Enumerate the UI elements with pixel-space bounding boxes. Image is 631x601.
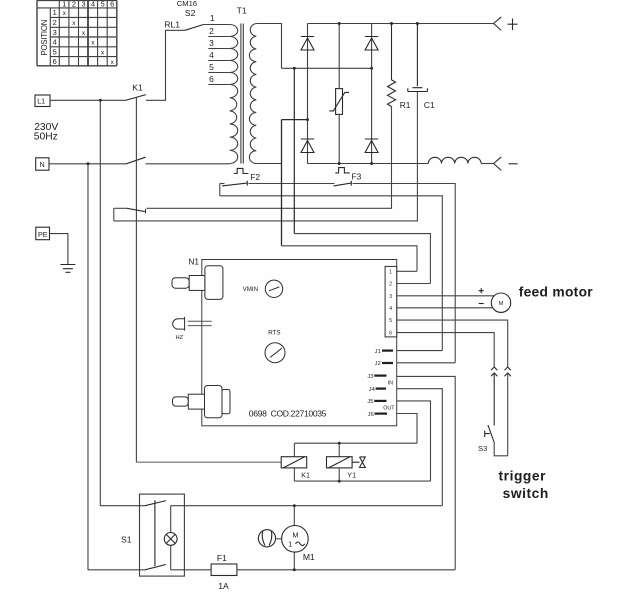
wire Y1 coil stubs <box>338 443 340 481</box>
symbol sine in M1 <box>296 542 305 546</box>
svg-text:C1: C1 <box>424 100 435 110</box>
jumper J6 dash <box>375 413 388 415</box>
svg-text:L1: L1 <box>37 97 45 106</box>
svg-text:J1: J1 <box>375 349 381 355</box>
solenoid valve coil Y1 <box>327 457 353 468</box>
svg-text:J3: J3 <box>367 374 373 380</box>
svg-text:K1: K1 <box>301 471 310 480</box>
svg-text:S1: S1 <box>121 534 132 544</box>
wire L1 to K1 <box>50 99 126 101</box>
board PCB outline <box>202 260 397 426</box>
svg-text:5: 5 <box>101 0 105 9</box>
wire N to K1 pole 2 <box>49 163 126 165</box>
svg-text:T1: T1 <box>237 5 247 15</box>
transformer primary winding <box>230 25 238 164</box>
switch S3 actuator <box>485 431 490 437</box>
wire choke to minus terminal <box>481 163 494 165</box>
wire AC1 row to pin2 jog <box>294 234 430 284</box>
wire row B to J1 drop <box>220 196 442 351</box>
wire S3 right vertical lower <box>507 373 509 456</box>
potentiometer P2 knob <box>205 386 223 418</box>
switch S1 link bar <box>154 500 156 566</box>
trimmer RTS slot <box>270 348 282 357</box>
wire S1 top row left <box>100 505 145 507</box>
wire row C-D left U turn <box>113 208 115 221</box>
contactor K1 pole 1 blade <box>126 95 146 101</box>
motor M1 circle <box>282 526 309 553</box>
svg-text:S2: S2 <box>185 8 196 18</box>
svg-text:R1: R1 <box>400 100 411 110</box>
node right leg bottom dot <box>370 162 373 165</box>
lamp S1 circle X <box>164 533 177 546</box>
motor M feed circle <box>491 293 510 312</box>
terminal box PE <box>36 227 50 240</box>
wire J4 down to S1 top row <box>397 389 443 506</box>
trimmer VMIN circle <box>265 280 282 297</box>
wire pin2 stub <box>397 283 431 285</box>
connector fork left <box>491 367 497 370</box>
wire pin1 stub <box>397 270 417 272</box>
svg-text:PE: PE <box>38 230 48 239</box>
svg-text:1: 1 <box>210 13 215 23</box>
jumper J4 dash <box>376 388 386 390</box>
svg-text:6: 6 <box>389 331 392 337</box>
wire DC top bus <box>308 23 494 25</box>
LED HZ leads <box>188 321 212 325</box>
svg-text:F3: F3 <box>352 172 362 182</box>
terminal box N <box>36 158 49 170</box>
resistor R1 <box>388 24 396 107</box>
node AC2 left leg dot <box>306 118 309 121</box>
symbol plus sign <box>508 19 518 31</box>
wire secondary bottom to AC2 riser <box>256 163 281 165</box>
ground symbol <box>60 265 75 273</box>
node AC1 branch dot <box>293 67 296 70</box>
diode D2 top right <box>365 37 378 51</box>
svg-text:5: 5 <box>52 47 56 56</box>
svg-text:trigger: trigger <box>499 469 547 484</box>
svg-text:POSITION: POSITION <box>40 20 49 56</box>
potentiometer P2 knob rear <box>222 390 230 414</box>
SECTION mains input left column <box>35 25 230 571</box>
trimmer VMIN slot <box>269 287 279 291</box>
varistor diagonal <box>329 92 349 111</box>
wire L1 branch down to S1 top row <box>99 100 101 505</box>
wire N branch down to bottom row <box>87 164 89 570</box>
svg-text:J4: J4 <box>369 387 376 393</box>
wire AC2 row to pin1 jog <box>282 246 418 271</box>
wire row D to C1 bottom riser <box>114 92 418 221</box>
wire fan link <box>276 538 281 540</box>
thermal sensor F3 symbol <box>335 168 350 173</box>
node M1 bottom dot <box>293 568 296 571</box>
SECTION bottom power row S1 F1 M1 <box>88 494 455 576</box>
diode D4 bottom right <box>365 139 378 153</box>
svg-text:4: 4 <box>91 0 95 9</box>
svg-text:N: N <box>40 160 45 169</box>
svg-text:HZ: HZ <box>176 335 184 341</box>
svg-text:5: 5 <box>209 62 214 72</box>
node Y1 top dot <box>338 442 341 445</box>
svg-text:S3: S3 <box>478 444 487 453</box>
relay coil K1 <box>281 457 307 468</box>
wire S1 lamp branch <box>170 506 172 570</box>
switch S3 blade <box>488 425 495 443</box>
symbol minus at motor <box>479 303 484 305</box>
node C1 top dot <box>416 22 419 25</box>
svg-text:50Hz: 50Hz <box>34 132 58 143</box>
wire J2 up to row A <box>397 362 456 364</box>
SECTION board pin wires and feed motor <box>397 288 511 456</box>
wire J5 down to coil bottom row <box>397 401 431 481</box>
capacitor C1 <box>408 24 428 92</box>
table x marks <box>63 10 115 66</box>
wire pin4 to motor minus <box>397 307 493 309</box>
svg-text:J2: J2 <box>375 361 381 367</box>
inductor L choke <box>428 157 481 163</box>
svg-text:6: 6 <box>110 0 114 9</box>
wire row A middle segment <box>249 183 335 185</box>
svg-text:1: 1 <box>62 0 66 9</box>
svg-text:1: 1 <box>389 269 392 275</box>
svg-text:5: 5 <box>389 318 392 324</box>
wire pin3 to motor plus <box>397 295 495 297</box>
contactor K1 pole 2 blade <box>126 157 146 164</box>
wire varistor legs <box>338 24 340 164</box>
wire AC2 riser and jog to left leg <box>282 120 308 246</box>
wire S1 pole2 to fuse F1 <box>171 569 211 571</box>
potentiometer P2 shaft <box>188 394 204 409</box>
wire pin6 to S3 left drop upper <box>397 333 495 367</box>
SECTION control board <box>172 260 397 426</box>
potentiometer N1 shaft <box>189 276 205 291</box>
svg-text:IN: IN <box>388 381 393 387</box>
wire K1 pole1 to RL1 riser <box>146 30 185 100</box>
potentiometer N1 shaft tip <box>172 278 189 289</box>
jumper J1 dash <box>382 350 393 352</box>
wire row C left corner <box>114 207 127 209</box>
svg-text:F2: F2 <box>250 172 260 182</box>
svg-text:M: M <box>292 530 298 539</box>
wire PE to ground <box>50 234 68 265</box>
svg-text:switch: switch <box>503 486 549 501</box>
connector minus output fork <box>494 157 502 171</box>
svg-text:VMIN: VMIN <box>243 286 258 293</box>
connector fork right <box>505 367 511 370</box>
switch RL1 blade <box>185 25 203 31</box>
wire pin5 to S3 right drop <box>397 320 508 367</box>
contact F2 blade <box>222 181 247 186</box>
wire S3 bottom U to right drop <box>494 443 508 456</box>
symbol plus at motor <box>479 288 484 293</box>
wire bridge right leg <box>371 24 373 164</box>
svg-text:K1: K1 <box>132 83 143 93</box>
wire K1 pole2 to transformer primary bottom <box>146 163 230 165</box>
wire row A-B left U turn <box>219 184 221 196</box>
svg-text:6: 6 <box>52 57 56 66</box>
potentiometer P2 shaft tip <box>173 397 189 406</box>
node L1 junction dot <box>99 99 102 102</box>
wire K1 blade tap down to K1 coil feed <box>135 97 137 462</box>
svg-text:4: 4 <box>209 50 214 60</box>
fuse F1 <box>211 564 237 576</box>
svg-text:2: 2 <box>389 282 392 288</box>
svg-text:Y1: Y1 <box>347 471 356 480</box>
connector block pins 1-6 <box>385 266 397 337</box>
transformer core <box>241 24 243 164</box>
node varistor bottom dot <box>338 162 341 165</box>
wire fuse to J3 drop <box>237 569 455 571</box>
svg-text:M: M <box>499 301 504 307</box>
wire K1 coil left feed <box>136 461 281 463</box>
svg-text:1: 1 <box>52 8 56 17</box>
connector plus output fork <box>494 17 502 31</box>
wire J1 up to row B <box>397 350 443 352</box>
node varistor top dot <box>338 22 341 25</box>
wire bridge left leg <box>307 24 309 164</box>
wire J6 down to coil top row <box>397 414 417 444</box>
svg-text:J5: J5 <box>367 399 373 405</box>
wire coil bottom row <box>294 480 430 482</box>
node AC1 right leg dot <box>370 67 373 70</box>
diode D3 bottom left <box>301 139 314 153</box>
table row lines <box>50 17 117 56</box>
wire K1 coil stubs <box>293 443 295 481</box>
svg-text:CM16: CM16 <box>177 0 197 8</box>
table thick row line <box>50 36 117 38</box>
table column lines <box>50 0 107 65</box>
svg-text:4: 4 <box>52 38 57 47</box>
node N junction dot <box>87 162 90 165</box>
svg-text:M1: M1 <box>303 552 315 562</box>
wire DC bottom bus <box>308 163 429 165</box>
svg-text:3: 3 <box>81 0 85 9</box>
svg-text:4: 4 <box>389 306 392 312</box>
connector arrow left <box>491 373 497 426</box>
jumper J3 dash <box>374 375 386 377</box>
contact K1 aux blade <box>127 208 146 213</box>
svg-text:3: 3 <box>389 294 392 300</box>
wire RL1 to transformer tap 1 <box>203 24 229 26</box>
svg-text:feed motor: feed motor <box>519 284 594 299</box>
svg-text:2: 2 <box>72 0 76 9</box>
wire coil top row <box>294 442 417 444</box>
varistor body <box>336 89 343 115</box>
trimmer RTS circle <box>265 343 285 363</box>
SECTION top-left selector table <box>37 0 117 65</box>
SECTION transformer T1 <box>208 24 256 164</box>
SECTION AC feed rows to board pins 1-2 <box>282 234 431 284</box>
svg-text:J6: J6 <box>368 412 374 418</box>
SECTION rectifier bridge and DC output <box>256 17 517 246</box>
wire secondary top to AC1 drop <box>256 24 281 69</box>
table header row separator <box>37 7 117 9</box>
svg-text:RL1: RL1 <box>164 19 180 29</box>
wire AC1 horizontal to right leg <box>282 67 372 69</box>
svg-text:2: 2 <box>52 18 56 27</box>
table outer frame <box>37 0 117 65</box>
svg-text:3: 3 <box>52 28 56 37</box>
transformer primary tap lines <box>208 37 229 85</box>
valve Y1 bowtie <box>352 457 365 468</box>
svg-text:F1: F1 <box>217 553 227 563</box>
svg-text:1A: 1A <box>218 581 229 591</box>
wire row A right segment to J2 drop <box>353 184 456 363</box>
symbol minus sign <box>509 163 518 165</box>
potentiometer N1 knob <box>205 266 223 300</box>
svg-text:1: 1 <box>288 540 292 549</box>
diode D1 top left <box>301 37 314 51</box>
switch S1 pole2 blade <box>145 565 166 570</box>
svg-text:N1: N1 <box>188 256 199 266</box>
connector arrow right <box>505 373 511 376</box>
wire M1 stubs <box>293 506 295 570</box>
SECTION thermal cutouts and control rows <box>114 92 455 363</box>
svg-text:RTS: RTS <box>268 329 280 336</box>
wire row C to R1 bottom riser <box>147 107 392 209</box>
switch S1 pole1 blade <box>145 501 166 506</box>
terminal box L1 <box>35 95 50 107</box>
jumper J2 dash <box>382 362 393 364</box>
LED HZ body <box>173 317 185 331</box>
jumper J5 dash <box>374 400 386 402</box>
contact F3 blade <box>334 181 352 186</box>
wire J3 down to bottom row <box>397 376 456 569</box>
wire row A left segment <box>220 183 225 185</box>
node R1 top dot <box>390 22 393 25</box>
svg-text:0698 COD.22710035: 0698 COD.22710035 <box>249 408 327 418</box>
node M1 top dot <box>293 504 296 507</box>
thermal sensor F2 symbol <box>234 168 249 173</box>
wire AC1 branch down to pin2 row <box>293 68 295 233</box>
SECTION J wires to relay valve section <box>136 351 455 570</box>
switch S1 box <box>140 494 185 576</box>
fan symbol <box>258 530 275 547</box>
svg-text:6: 6 <box>209 74 214 84</box>
transformer secondary winding <box>249 24 256 164</box>
table thick column line <box>87 0 89 65</box>
wire S1 pole1 out <box>171 505 443 507</box>
node Y1 bottom dot <box>338 480 341 483</box>
svg-text:2: 2 <box>209 26 214 36</box>
svg-text:3: 3 <box>209 38 214 48</box>
wire bottom row left <box>88 569 145 571</box>
svg-text:OUT: OUT <box>383 406 395 412</box>
